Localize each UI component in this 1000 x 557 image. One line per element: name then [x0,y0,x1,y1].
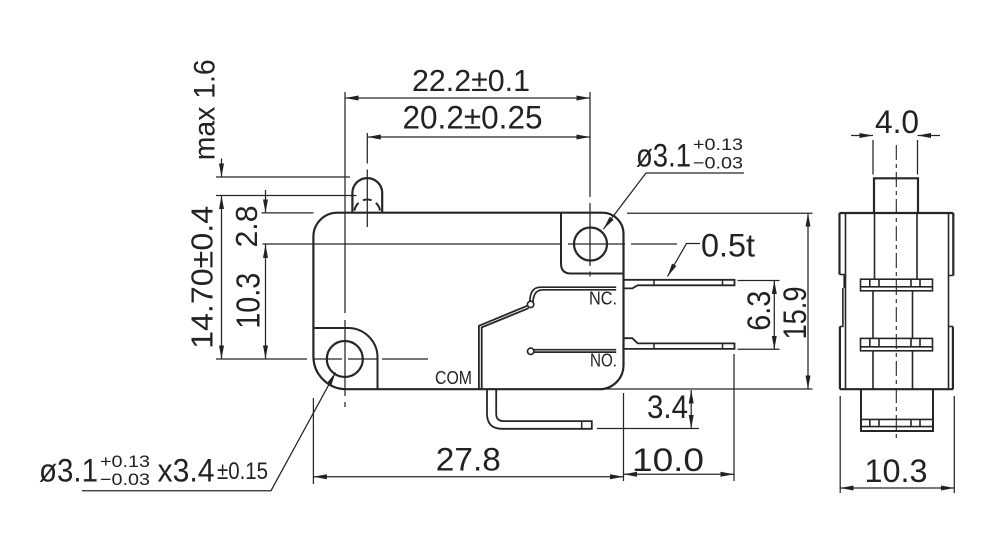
side view dimensions [840,136,954,494]
svg-text:+0.13: +0.13 [100,452,150,471]
extension line plunger pressed y=195.5 [216,195,357,197]
extension lines 4.0 [873,140,918,175]
leader for Ø3.1 top hole [604,173,745,229]
dimension line 6.3 [773,281,775,350]
svg-text:20.2±0.25: 20.2±0.25 [403,100,543,136]
NO terminal bar (side view) [861,338,933,350]
dimension line 3.4 [690,390,692,428]
svg-text:10.0: 10.0 [632,442,704,478]
svg-text:22.2±0.1: 22.2±0.1 [412,63,530,98]
side view body outline [840,213,954,389]
plunger pressed position dashed arc [355,200,381,211]
extension line 27.8 left [312,398,314,484]
svg-text:−0.03: −0.03 [100,470,150,489]
plunger channel lines inside body [875,213,918,279]
svg-text:NC.: NC. [589,289,617,309]
bottom terminal block (side view) [861,389,933,431]
extension lines 6.3 [738,281,780,350]
top-right hole boss outline [561,213,624,274]
svg-text:6.3: 6.3 [741,291,777,331]
NC terminal tab [624,280,735,289]
extension line body top towards left [262,212,314,214]
svg-text:±0.15: ±0.15 [217,458,268,485]
extension lines 10.0 [624,354,735,481]
top-right mounting hole [574,228,607,261]
dimension line 10.3 [265,244,267,359]
svg-text:27.8: 27.8 [436,442,501,478]
extension lines 15.9 [602,213,813,389]
svg-text:+0.13: +0.13 [693,135,743,154]
leader for Ø3.1 x3.4 bottom hole [82,373,336,491]
extension lines 10.3 (side) [840,396,954,493]
dimension line 10.0 [624,473,735,475]
dimension 4.0 arrows (outside) [851,135,873,137]
svg-text:15.9: 15.9 [777,287,813,340]
NC contact arm (double line) [530,287,616,301]
svg-text:−0.03: −0.03 [693,154,743,173]
NC terminal bar (side view) [861,279,933,291]
svg-text:x3.4: x3.4 [158,453,215,489]
extension line 3.4 bottom [597,428,699,430]
svg-text:3.4: 3.4 [647,389,688,425]
svg-text:NO.: NO. [590,351,617,371]
svg-text:ø3.1: ø3.1 [636,138,691,174]
dimension line 20.2±0.25 [367,136,590,138]
svg-text:4.0: 4.0 [875,104,919,140]
bottom-left hole boss outline [313,328,377,389]
extension line through top-right hole centre y=244 [263,243,678,245]
dimension line 14.70±0.4 [221,196,223,360]
side view plunger [874,178,918,213]
COM terminal bar (side view) [861,419,933,426]
extension line x=345 (left hole centre vertical) [344,92,346,407]
dimension line 15.9 [807,213,809,389]
dimension line 22.2±0.1 [345,97,590,99]
extension line through bottom-left hole centre y=359 [216,358,428,360]
switch body outline (front view) [313,213,623,390]
extension line x=590 (right hole centre vertical) [589,92,591,277]
svg-text:ø3.1: ø3.1 [39,453,98,489]
blade pivot circle [527,301,533,307]
side body inner seam lines [843,213,949,389]
side body seam steps [840,275,954,327]
plunger button (front view) [352,178,382,212]
plunger centreline [366,133,368,227]
COM terminal tab (bottom L-shape) [487,389,592,429]
svg-text:2.8: 2.8 [229,206,264,248]
svg-text:max 1.6: max 1.6 [189,59,222,160]
2.8 dimension arrow [265,190,267,213]
svg-text:10.3: 10.3 [865,453,928,489]
svg-text:10.3: 10.3 [230,273,267,329]
NO contact line (double line) [534,349,616,351]
NO terminal tab [624,338,735,349]
extension line plunger free top y=177 [216,176,350,178]
verticals below NO bar [873,351,913,389]
NO contact circle [528,348,534,354]
bottom-left mounting hole [327,341,363,377]
svg-text:14.70±0.4: 14.70±0.4 [185,206,220,349]
svg-text:COM: COM [435,368,472,388]
leader for 0.5t [668,244,701,277]
dimension line 27.8 [313,476,623,478]
max 1.6 upper arrow [221,159,223,178]
verticals between terminal bars [873,291,913,339]
svg-text:0.5t: 0.5t [701,228,755,264]
dimension line 10.3 (side) [840,487,954,489]
side view centreline [895,145,897,441]
internal contact blade COM riser (double line) [479,306,528,390]
